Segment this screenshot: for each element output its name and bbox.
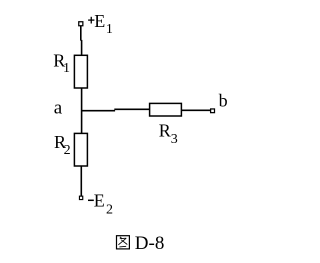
svg-text:E: E [94,191,105,211]
svg-text:R: R [159,121,171,141]
svg-text:E: E [94,11,105,31]
resistor R1 [74,55,87,88]
svg-text:D-8: D-8 [135,233,165,254]
svg-text:1: 1 [63,61,70,76]
wire from R3 to terminal b [182,109,211,111]
svg-text:2: 2 [106,202,113,217]
wire from R1 to R2 through node a [81,88,83,133]
wire from R2 to -E2 terminal [80,166,82,196]
svg-text:2: 2 [64,143,71,158]
wire from node a to R3 [81,110,115,112]
svg-text:a: a [54,97,63,118]
terminal square for -E2 [79,196,82,199]
resistor R3 [150,103,182,116]
svg-text:3: 3 [171,132,178,147]
caption: hand-drawn CJK 图 [117,236,130,249]
terminal square for +E1 [79,22,83,26]
wire from +E1 terminal to R1 [80,26,82,41]
label -E2 [88,199,94,201]
label +E1 [88,19,94,21]
svg-text:b: b [219,90,228,110]
resistor R2 [74,133,87,166]
terminal square for b [211,109,215,113]
svg-text:1: 1 [106,22,113,37]
